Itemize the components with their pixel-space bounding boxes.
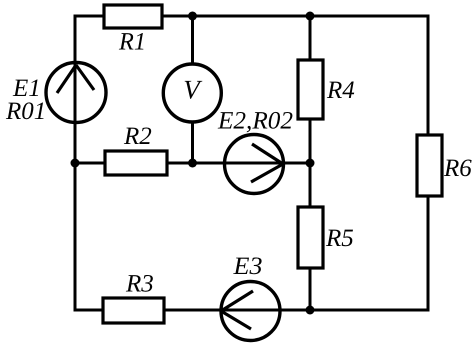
svg-text:R2: R2 <box>123 123 152 150</box>
resistor R4 <box>298 60 323 119</box>
label E1 <box>12 75 41 102</box>
label R3 <box>125 271 154 298</box>
resistor R2 <box>105 151 167 175</box>
label R4 <box>326 77 355 104</box>
wire middle row <box>75 162 310 165</box>
node junction top-R4 <box>306 12 315 21</box>
wire top: left corner to right corner <box>75 15 428 18</box>
svg-text:R3: R3 <box>125 271 154 298</box>
source E1,R01 circle with up arrow <box>46 63 106 123</box>
svg-text:R01: R01 <box>5 98 46 125</box>
svg-text:E2,R02: E2,R02 <box>217 108 293 135</box>
wire bottom: left corner to right corner <box>75 309 428 312</box>
resistor R6 <box>417 135 442 196</box>
label R2 <box>123 123 152 150</box>
node junction top-V <box>188 12 197 21</box>
svg-text:R4: R4 <box>326 77 355 104</box>
wire right: top corner down to bottom corner <box>427 15 430 312</box>
node junction bottom-R5 <box>306 306 315 315</box>
node junction left-middle <box>71 159 80 168</box>
source E3 circle with left arrow <box>221 282 280 341</box>
node junction V-middle <box>188 159 197 168</box>
source E2,R02 circle with right arrow <box>225 135 284 194</box>
svg-text:E3: E3 <box>232 253 262 280</box>
label E2,R02 <box>217 108 293 135</box>
resistor R3 <box>103 298 164 323</box>
wire left: top corner down to bottom corner <box>74 15 77 312</box>
label E3 <box>232 253 262 280</box>
resistor R5 <box>298 207 323 268</box>
wire R4-R5 branch <box>309 16 312 310</box>
node junction middle-R4R5 <box>306 159 315 168</box>
resistor R1 <box>104 5 162 28</box>
label R1 <box>118 29 146 56</box>
label R5 <box>325 225 354 252</box>
svg-text:R5: R5 <box>325 225 354 252</box>
voltmeter V <box>163 64 221 122</box>
wire voltmeter branch <box>191 16 194 163</box>
label R01 <box>5 98 46 125</box>
label R6 <box>443 155 472 182</box>
svg-text:R6: R6 <box>443 155 472 182</box>
svg-text:R1: R1 <box>118 29 146 56</box>
